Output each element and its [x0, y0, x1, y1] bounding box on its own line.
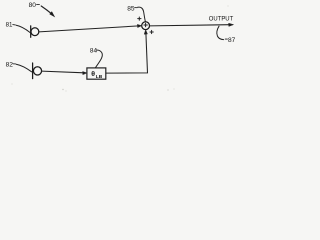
svg-text:LB: LB [96, 74, 103, 80]
label 84 with leader [90, 47, 102, 67]
block 84 (theta LB) [87, 68, 106, 79]
plus sign (upper input of summer) [138, 17, 141, 20]
scan speckles [12, 6, 229, 92]
label 81 with leader [6, 22, 31, 33]
svg-text:87: 87 [228, 37, 236, 44]
svg-text:OUTPUT: OUTPUT [209, 16, 233, 23]
summing junction 85 [142, 22, 150, 30]
svg-text:82: 82 [6, 61, 14, 68]
input terminal 81 [31, 26, 39, 37]
output wire with arrowhead [150, 23, 234, 26]
plus sign (lower input of summer) [150, 30, 153, 33]
wire: block 84 to summing junction (elbow, arrowhead up) [106, 30, 148, 73]
input terminal 82 [33, 63, 42, 79]
svg-text:84: 84 [90, 47, 98, 54]
wire: input 82 to block 84 (arrowhead at block) [42, 71, 87, 74]
OUTPUT label [209, 16, 233, 23]
svg-text:85: 85 [127, 5, 135, 12]
reference numeral 80 with arrow [29, 2, 55, 16]
wire: input 81 to summing junction (arrowhead at junction) [39, 24, 142, 32]
svg-text:81: 81 [6, 22, 13, 29]
label 82 with leader [6, 61, 32, 72]
label 87 with curved leader [217, 26, 236, 44]
label 85 with hooked leader [127, 5, 145, 21]
svg-text:80: 80 [29, 2, 37, 9]
value label theta-LB inside block 84 [91, 70, 103, 80]
svg-text:θ: θ [91, 70, 95, 78]
